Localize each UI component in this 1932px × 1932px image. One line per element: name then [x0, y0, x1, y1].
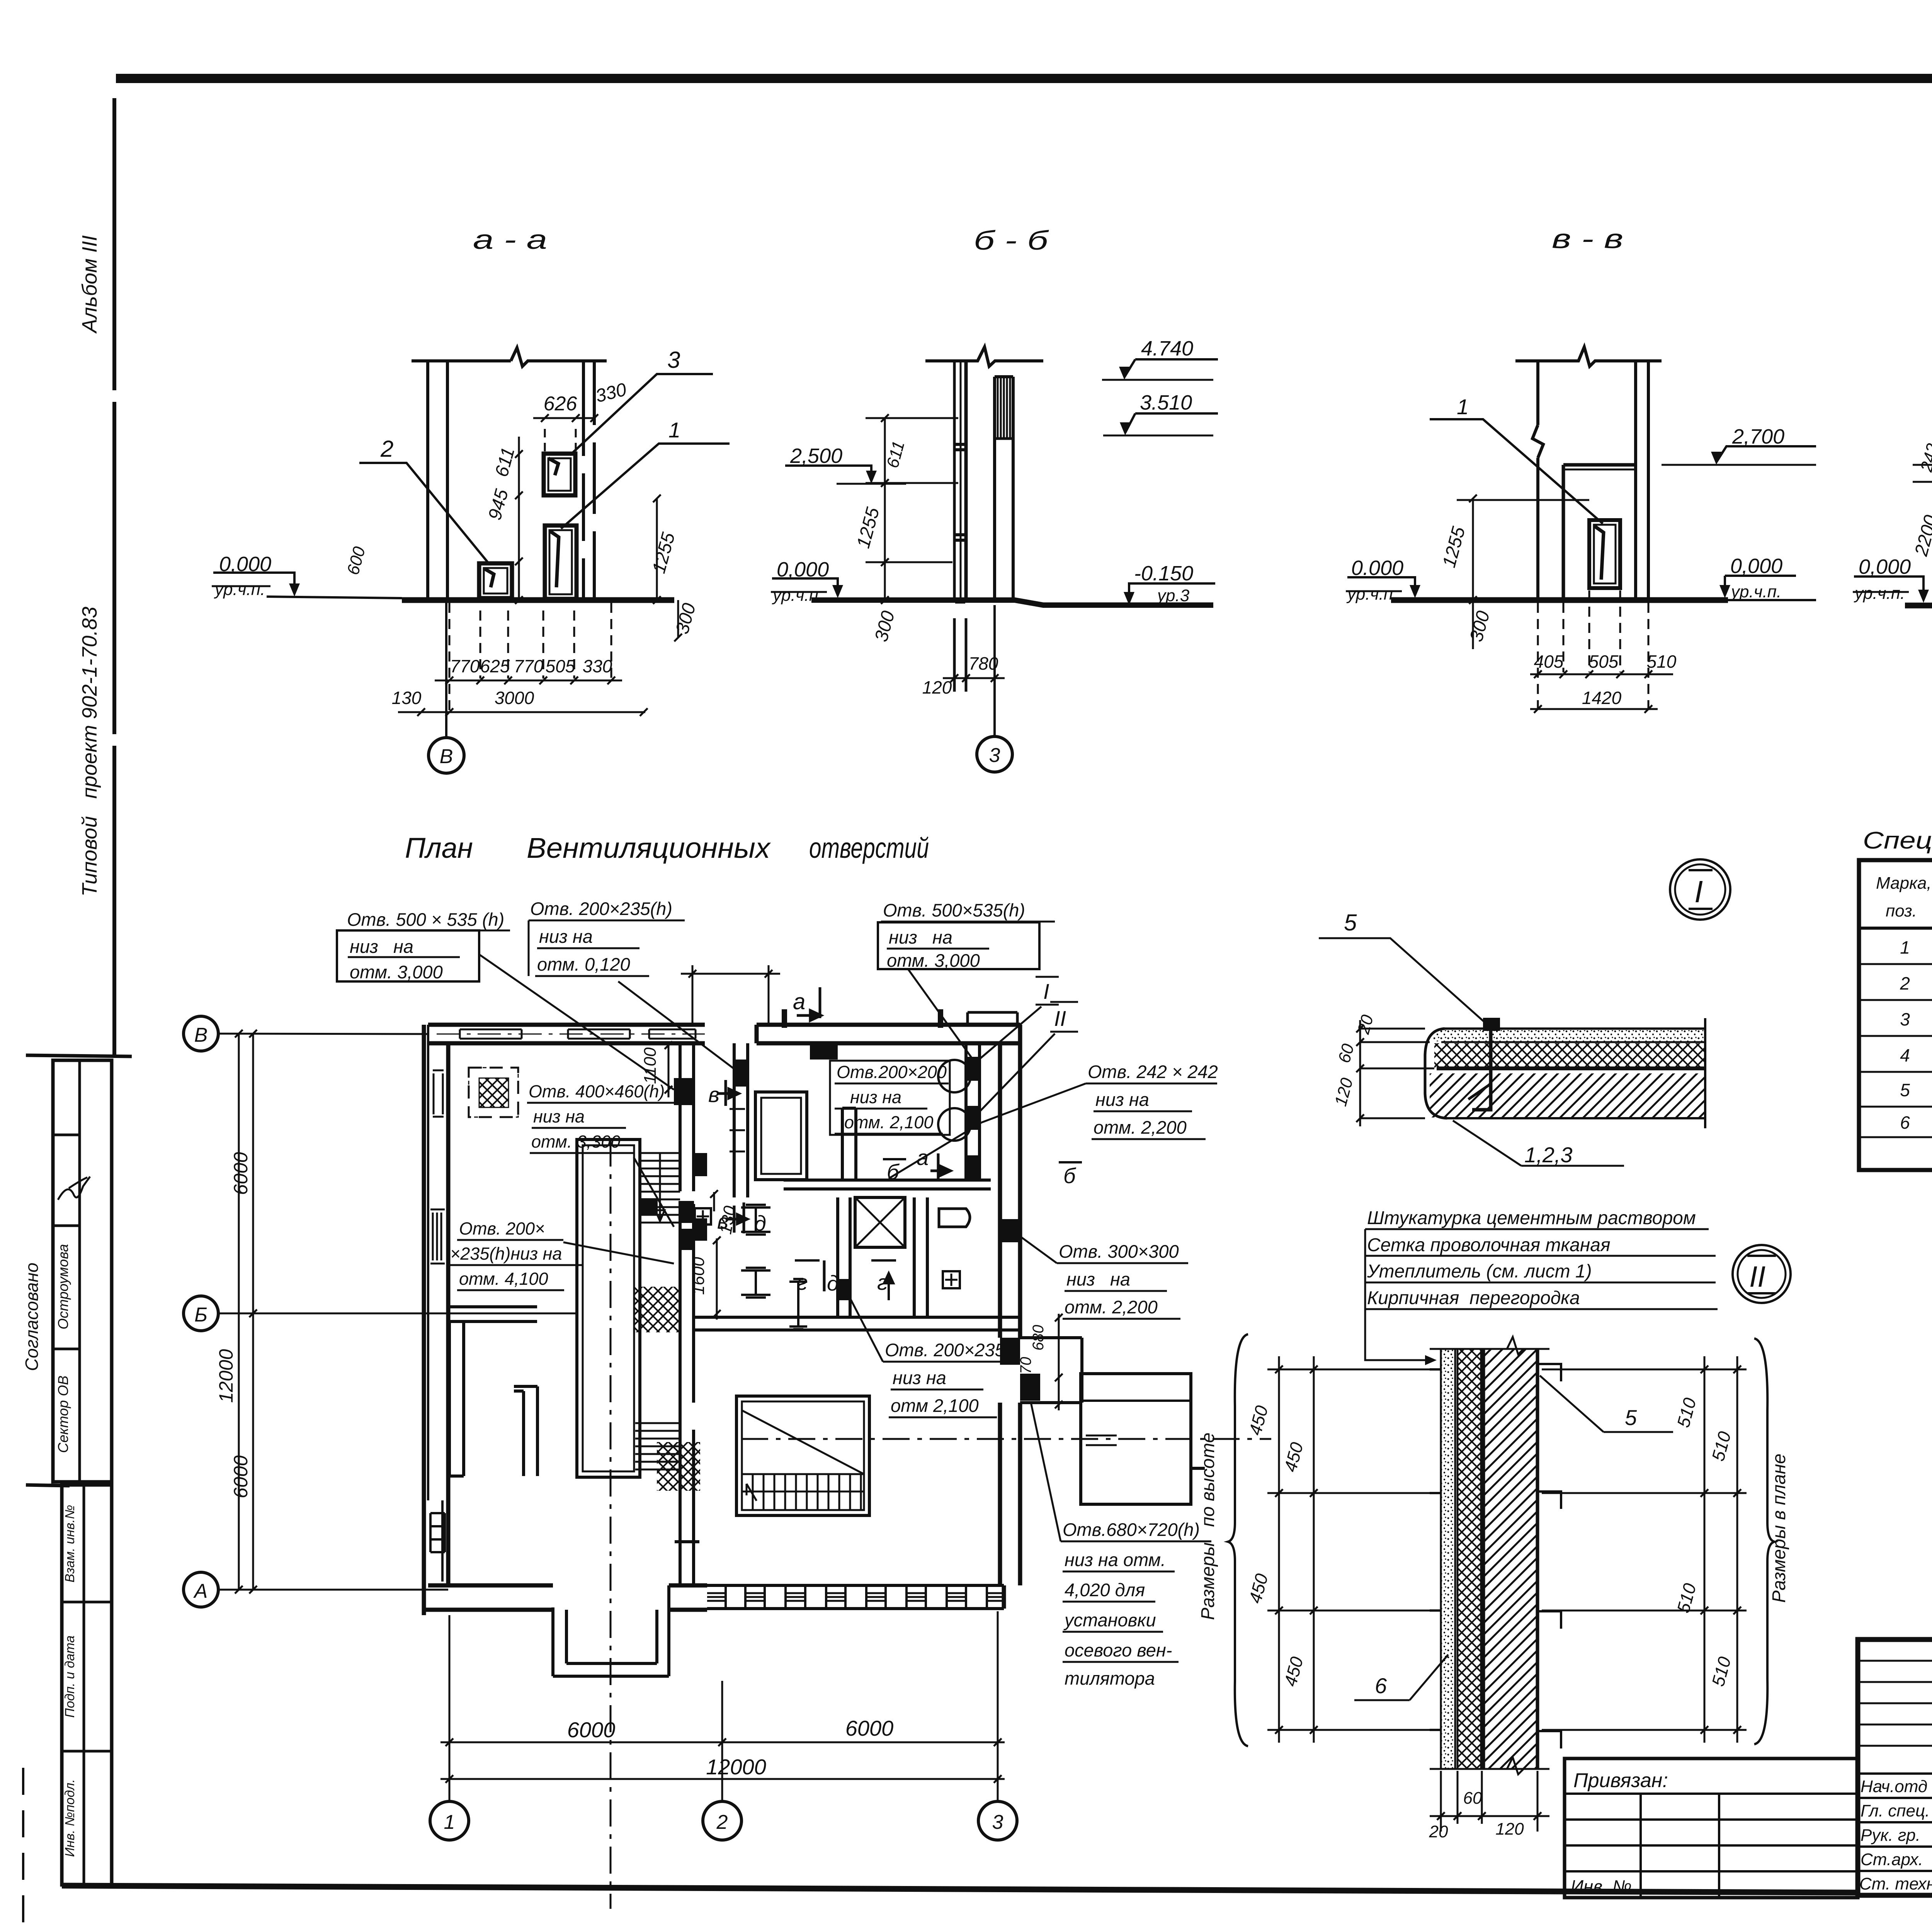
- B-B left wall column lines: [953, 361, 956, 598]
- svg-text:низ на: низ на: [850, 1087, 901, 1107]
- svg-text:б: б: [1063, 1163, 1077, 1188]
- plan top exterior wall left part: [428, 1025, 705, 1043]
- plan callout 7 Otv242x242: [1088, 1061, 1218, 1138]
- plan black openings on walls: [968, 1057, 980, 1081]
- A-A opening pos2: [479, 563, 512, 598]
- svg-text:6000: 6000: [567, 1718, 616, 1742]
- svg-text:Спецификация к схеме расположе: Спецификация к схеме расположения заклад…: [1863, 827, 1932, 854]
- A-A leader 3: [570, 374, 713, 455]
- V-V leader 1: [1430, 419, 1603, 524]
- plan bottom dim line 1: [440, 1738, 1005, 1746]
- B-B right wall lines: [993, 377, 996, 600]
- plan callout 9 Otv200x235 low: [885, 1340, 1005, 1416]
- plan middle partitions: [838, 1197, 850, 1317]
- svg-text:б - б: б - б: [974, 225, 1049, 255]
- svg-text:II: II: [1054, 1006, 1066, 1031]
- wall detail left dims: [1279, 1356, 1314, 1743]
- svg-text:отм. 3,300: отм. 3,300: [531, 1132, 620, 1151]
- svg-text:780: 780: [969, 653, 998, 673]
- A-A bottom dim line 2: [398, 708, 648, 716]
- A-A grid circle V: [429, 738, 464, 773]
- G-G level 0.000 left flag: [1854, 577, 1923, 600]
- plan beam symbols: [741, 1205, 770, 1235]
- svg-text:А: А: [193, 1580, 208, 1602]
- svg-text:3: 3: [992, 1811, 1003, 1833]
- plan crosshatch blob stairs bottom: [657, 1442, 700, 1491]
- plan dim 1600: [713, 1236, 721, 1320]
- plan callout 10 Otv680x720: [1063, 1519, 1200, 1689]
- plan section mark b right: [1059, 1161, 1082, 1163]
- plan dim 770/680 appendix: [1055, 1314, 1063, 1410]
- detail I dims: [1356, 1020, 1364, 1126]
- detail II circle: [1733, 1245, 1791, 1303]
- svg-text:12000: 12000: [706, 1755, 766, 1779]
- svg-text:низ на: низ на: [539, 926, 593, 947]
- svg-text:Привязан:: Привязан:: [1573, 1769, 1668, 1792]
- spec table frame: [1859, 860, 1932, 1170]
- svg-text:д: д: [827, 1271, 839, 1295]
- V-V right wall lines: [1634, 361, 1637, 600]
- svg-text:отм. 3,000: отм. 3,000: [887, 950, 980, 971]
- B-B level 2.500 flag: [785, 466, 871, 481]
- plan bottom dim line 2: [440, 1775, 1005, 1783]
- A-A leader 2: [359, 463, 490, 565]
- svg-text:ур.ч.п.: ур.ч.п.: [1730, 582, 1781, 601]
- plan vertical axis dash-dot: [610, 1139, 612, 1909]
- svg-text:Подп. и дата: Подп. и дата: [63, 1636, 77, 1718]
- svg-text:ур.ч.п.: ур.ч.п.: [214, 580, 265, 599]
- svg-text:осевого вен-: осевого вен-: [1065, 1640, 1172, 1660]
- svg-text:В: В: [194, 1024, 208, 1046]
- plan fan duct box: [1081, 1374, 1191, 1504]
- V-V left dim chain: [1469, 495, 1477, 604]
- V-V left wall line: [1532, 361, 1543, 600]
- plan right appendix: [1020, 1338, 1082, 1403]
- svg-text:3: 3: [989, 744, 1000, 767]
- wall detail right dims: [1704, 1356, 1737, 1743]
- A-A left dim chain: [515, 437, 523, 604]
- B-B below floor dim: [943, 674, 1005, 682]
- plan bottom exterior wall left part: [424, 1585, 553, 1610]
- svg-text:1: 1: [1900, 937, 1910, 957]
- svg-text:1: 1: [444, 1811, 455, 1833]
- svg-text:1,2,3: 1,2,3: [1524, 1143, 1573, 1167]
- svg-text:I: I: [1694, 874, 1703, 909]
- svg-text:Б: Б: [194, 1304, 207, 1326]
- plan callout 1 Otv500x535 left: [347, 909, 504, 982]
- A-A top dim 626 line: [533, 414, 598, 422]
- sidebar lower table: [62, 1485, 112, 1885]
- svg-text:Сетка проволочная тканая: Сетка проволочная тканая: [1367, 1235, 1611, 1255]
- svg-text:120: 120: [1495, 1820, 1524, 1838]
- svg-text:Взам. инв.№: Взам. инв.№: [63, 1505, 77, 1583]
- svg-text:626: 626: [544, 393, 577, 415]
- svg-text:а: а: [917, 1145, 929, 1170]
- svg-text:Согласовано: Согласовано: [22, 1263, 42, 1371]
- svg-text:Гл. спец.: Гл. спец.: [1861, 1801, 1930, 1820]
- svg-text:поз.: поз.: [1886, 901, 1917, 920]
- detail I anchor: [1483, 1018, 1500, 1031]
- B-B level 4.740 flag: [1124, 359, 1218, 377]
- svg-text:отм. 2,200: отм. 2,200: [1094, 1117, 1187, 1138]
- wall detail leader 5: [1540, 1376, 1673, 1432]
- svg-text:Марка,: Марка,: [1876, 874, 1932, 893]
- svg-text:60: 60: [1463, 1789, 1482, 1808]
- B-B top wall line with break: [925, 347, 1043, 366]
- svg-text:3000: 3000: [495, 688, 534, 708]
- svg-text:низ на отм.: низ на отм.: [1065, 1549, 1166, 1570]
- detail I leader 5: [1319, 938, 1486, 1023]
- plan right exterior wall: [1000, 1025, 1020, 1338]
- frame bottom border: [62, 1886, 1859, 1893]
- sidebar upper table: [53, 1060, 112, 1482]
- plan X-damper box: [855, 1197, 905, 1247]
- svg-text:Отв. 300×300: Отв. 300×300: [1059, 1241, 1179, 1262]
- svg-text:6000: 6000: [230, 1152, 252, 1195]
- svg-text:Рук. гр.: Рук. гр.: [1861, 1826, 1920, 1845]
- plan callout 6 Otv200x200 framed: [837, 1062, 947, 1132]
- svg-text:2,700: 2,700: [1732, 425, 1784, 448]
- svg-text:отм. 2,100: отм. 2,100: [844, 1112, 933, 1132]
- svg-text:6000: 6000: [230, 1455, 252, 1498]
- B-B floor line stepped: [811, 600, 1213, 605]
- A-A bottom dim line 1: [435, 680, 622, 682]
- svg-text:а: а: [793, 989, 805, 1014]
- plan fixture right room: [939, 1209, 970, 1227]
- B-B level 3.510 flag: [1125, 413, 1218, 433]
- V-V opening rect: [1589, 520, 1620, 588]
- plan top exterior wall right part: [757, 1025, 1020, 1043]
- sidebar signature squiggle: [58, 1177, 90, 1200]
- svg-text:в: в: [717, 1209, 728, 1233]
- svg-text:Отв. 242 × 242: Отв. 242 × 242: [1088, 1061, 1218, 1082]
- plan left dim line 6000s: [249, 1030, 257, 1594]
- svg-text:770: 770: [514, 656, 544, 676]
- svg-text:0.000: 0.000: [1351, 556, 1403, 580]
- plan stair shaft: [577, 1139, 640, 1477]
- svg-text:1600: 1600: [689, 1257, 708, 1295]
- title block: [1858, 1639, 1932, 1895]
- svg-text:отм. 2,200: отм. 2,200: [1065, 1297, 1158, 1317]
- plan callout 8 Otv300x300: [1059, 1241, 1179, 1317]
- svg-text:4.740: 4.740: [1141, 337, 1193, 360]
- plan small plus box: [695, 1208, 711, 1225]
- plan section cut thick ticks on top wall: [784, 1009, 940, 1028]
- svg-text:505: 505: [1589, 651, 1619, 672]
- svg-text:0,000: 0,000: [777, 558, 829, 581]
- plan small plus box 2: [943, 1271, 960, 1288]
- svg-text:120: 120: [922, 677, 952, 697]
- svg-text:2: 2: [716, 1811, 728, 1833]
- plan vent partition x2500: [966, 1043, 980, 1180]
- A-A top wall line with break: [412, 348, 607, 366]
- svg-text:отверстий: отверстий: [809, 832, 929, 864]
- wall detail braces: [1228, 1334, 1248, 1746]
- svg-text:ур.ч.п.: ур.ч.п.: [1346, 585, 1398, 604]
- detail I circle: [1670, 859, 1730, 920]
- frame top border: [116, 77, 1932, 78]
- plan dim 130: [710, 1190, 718, 1211]
- V-V top wall line with break: [1515, 347, 1662, 366]
- svg-text:5: 5: [1900, 1080, 1910, 1100]
- svg-text:1420: 1420: [1582, 688, 1622, 708]
- svg-text:Отв. 200×: Отв. 200×: [459, 1219, 545, 1238]
- plan partition bottom-left horizontal band: [448, 1307, 537, 1321]
- wall detail leader 6: [1354, 1655, 1448, 1700]
- svg-text:6: 6: [1900, 1112, 1910, 1133]
- plan crosshatch blob stairs mid: [634, 1287, 679, 1332]
- svg-text:Размеры в плане: Размеры в плане: [1769, 1454, 1789, 1603]
- B-B level 0.000 flag: [772, 578, 838, 595]
- V-V lintel: [1563, 463, 1636, 467]
- plan wall y3409: [694, 1317, 1020, 1330]
- svg-text:1: 1: [668, 418, 680, 442]
- svg-text:5: 5: [1344, 910, 1357, 935]
- svg-text:г: г: [797, 1270, 808, 1294]
- svg-text:12000: 12000: [215, 1349, 237, 1403]
- svg-text:В: В: [440, 745, 453, 768]
- svg-text:0,000: 0,000: [219, 553, 271, 576]
- svg-text:405: 405: [1534, 651, 1564, 672]
- B-B hatched strip in right wall: [998, 378, 1010, 439]
- plan interior long wall x1760: [675, 1043, 699, 1585]
- svg-text:Ст.арх.: Ст.арх.: [1861, 1850, 1923, 1869]
- svg-text:680: 680: [1030, 1325, 1047, 1351]
- plan dim lines above vent chamber: [681, 965, 780, 1024]
- svg-text:×235(h)низ на: ×235(h)низ на: [450, 1244, 562, 1264]
- svg-text:130: 130: [392, 688, 422, 708]
- svg-text:д: д: [754, 1211, 766, 1235]
- sidebar line above upper table: [26, 1055, 132, 1056]
- plan stair treads upper: [640, 1153, 680, 1223]
- svg-text:Отв. 500×535(h): Отв. 500×535(h): [883, 900, 1025, 920]
- svg-text:Отв.200×200: Отв.200×200: [837, 1062, 947, 1082]
- A-A opening pos1: [545, 526, 577, 599]
- svg-text:тилятора: тилятора: [1065, 1668, 1155, 1689]
- svg-text:Кирпичная перегородка: Кирпичная перегородка: [1367, 1288, 1580, 1308]
- V-V level 0.000 left flag: [1347, 577, 1415, 595]
- svg-text:низ на: низ на: [1066, 1269, 1130, 1289]
- svg-text:а - а: а - а: [473, 224, 547, 255]
- svg-text:770: 770: [450, 656, 480, 676]
- V-V opening jamb: [1562, 465, 1565, 600]
- frame left border: [112, 98, 116, 1055]
- V-V below floor dim 300: [1472, 603, 1474, 649]
- svg-text:6000: 6000: [845, 1716, 894, 1740]
- wall detail bottom dims: [1441, 1771, 1537, 1832]
- plan callout 4 Otv400x460: [529, 1082, 665, 1151]
- svg-text:Отв. 200×235(h): Отв. 200×235(h): [530, 898, 672, 919]
- svg-text:Отв. 400×460(h): Отв. 400×460(h): [529, 1082, 665, 1101]
- svg-text:в - в: в - в: [1552, 224, 1623, 254]
- A-A level 0.000 flag: [213, 573, 294, 594]
- wall detail anchors: [1537, 1364, 1561, 1748]
- svg-text:низ на: низ на: [533, 1107, 585, 1126]
- plan bottom-left interior partition: [449, 1321, 464, 1476]
- svg-text:установки: установки: [1063, 1610, 1156, 1630]
- svg-text:2: 2: [1900, 973, 1910, 993]
- plan horizontal axis dash-dot: [741, 1438, 1271, 1440]
- plan vent room bottom wall: [784, 1180, 991, 1189]
- B-B left column fill marks: [955, 444, 965, 602]
- svg-text:Размеры по высоте: Размеры по высоте: [1198, 1432, 1218, 1620]
- plan vent partition x2180: [842, 1108, 856, 1180]
- svg-text:Вентиляционных: Вентиляционных: [527, 832, 771, 864]
- B-B level -0.150 flag: [1129, 583, 1215, 602]
- svg-text:Инв. №подл.: Инв. №подл.: [63, 1779, 77, 1857]
- svg-text:1: 1: [1457, 395, 1469, 419]
- svg-text:Инв. №: Инв. №: [1571, 1876, 1632, 1896]
- G-G floor line: [1905, 603, 1932, 609]
- detail I leader 123: [1453, 1121, 1624, 1166]
- svg-text:Штукатурка цементным раствором: Штукатурка цементным раствором: [1367, 1208, 1696, 1228]
- svg-text:4,020 для: 4,020 для: [1065, 1580, 1145, 1600]
- svg-text:510: 510: [1647, 651, 1677, 672]
- svg-text:Остроумова: Остроумова: [55, 1244, 71, 1329]
- plan callout 3 Otv500x535 right: [883, 900, 1025, 971]
- svg-text:ур.ч.п.: ур.ч.п.: [772, 586, 823, 605]
- svg-text:505: 505: [546, 656, 575, 676]
- plan callout 2 Otv200x235 top: [530, 898, 672, 975]
- svg-text:б: б: [887, 1160, 900, 1184]
- privyazan box: [1565, 1759, 1858, 1898]
- A-A right wall lines: [582, 361, 585, 600]
- svg-text:0,000: 0,000: [1730, 554, 1782, 578]
- svg-text:Нач.отд: Нач.отд: [1861, 1777, 1927, 1796]
- detail II text lines: [1367, 1208, 1696, 1308]
- svg-text:ур.3: ур.3: [1156, 586, 1190, 605]
- A-A left wall lines: [426, 361, 429, 600]
- left margin dashed line: [22, 1768, 24, 1932]
- B-B left dim chain: [881, 414, 889, 604]
- svg-text:0,000: 0,000: [1859, 555, 1911, 578]
- svg-text:2,500: 2,500: [790, 444, 842, 468]
- plan stair treads lower: [635, 1423, 680, 1469]
- svg-text:отм 2,100: отм 2,100: [891, 1395, 979, 1416]
- svg-text:отм. 0,120: отм. 0,120: [537, 954, 630, 975]
- svg-text:низ на: низ на: [350, 936, 413, 957]
- svg-text:I: I: [1043, 979, 1049, 1003]
- plan vent chamber wall x1900: [734, 1043, 748, 1197]
- plan callout 5 Otv200x235 mid-left: [450, 1219, 562, 1289]
- svg-text:низ на: низ на: [889, 927, 952, 947]
- svg-text:низ на: низ на: [893, 1367, 946, 1388]
- svg-text:625: 625: [480, 656, 510, 676]
- V-V level 2.700 flag right: [1716, 446, 1816, 462]
- svg-text:Альбом III: Альбом III: [78, 235, 101, 334]
- svg-text:II: II: [1749, 1260, 1765, 1293]
- svg-text:2: 2: [380, 436, 393, 462]
- svg-text:отм. 3,000: отм. 3,000: [350, 962, 443, 982]
- plan grid circle A: [184, 1572, 218, 1607]
- plan left dim line 12000: [235, 1030, 243, 1594]
- wall detail strip: [1228, 1334, 1774, 1832]
- plan grid circle V: [184, 1016, 218, 1051]
- plan left exterior wall: [424, 1025, 448, 1615]
- B-B grid line 3: [993, 605, 996, 736]
- svg-text:Сектор ОВ: Сектор ОВ: [55, 1376, 71, 1453]
- V-V bottom dims: [1530, 670, 1673, 678]
- V-V level 0.000 right flag: [1725, 576, 1796, 595]
- svg-text:3.510: 3.510: [1140, 391, 1192, 414]
- A-A leader 1: [561, 444, 730, 529]
- A-A opening pos3: [544, 454, 575, 495]
- svg-text:отм. 4,100: отм. 4,100: [459, 1269, 548, 1289]
- svg-text:5: 5: [1625, 1405, 1637, 1430]
- A-A grid line V: [445, 600, 447, 737]
- plan flap valve circles: [938, 1060, 971, 1092]
- plan bottom grid circles: [430, 1801, 469, 1840]
- plan grid circle B: [184, 1296, 218, 1331]
- svg-text:3: 3: [667, 347, 680, 373]
- A-A right dim chain: [653, 495, 661, 604]
- plan section mark b + a bottom: [883, 1158, 906, 1160]
- plan roof hatch dashed square: [469, 1068, 518, 1117]
- plan vent equipment duct: [755, 1092, 807, 1180]
- detail I slab: [1319, 938, 1705, 1166]
- sidebar line above lower table: [26, 1485, 70, 1486]
- svg-text:6: 6: [1375, 1673, 1387, 1698]
- svg-text:ур.ч.п.: ур.ч.п.: [1854, 584, 1905, 603]
- svg-text:Утеплитель (см. лист 1): Утеплитель (см. лист 1): [1367, 1261, 1592, 1282]
- svg-text:Ст. техн.: Ст. техн.: [1859, 1874, 1932, 1893]
- svg-text:Отв. 200×235: Отв. 200×235: [885, 1340, 1005, 1360]
- plan dim marks 1100: [665, 1041, 672, 1097]
- V-V floor line: [1391, 597, 1728, 603]
- svg-text:4: 4: [1900, 1045, 1910, 1065]
- svg-text:Типовой проект 902-1-70.83: Типовой проект 902-1-70.83: [78, 607, 101, 896]
- svg-text:План: План: [405, 832, 473, 864]
- svg-text:Отв. 500 × 535 (h): Отв. 500 × 535 (h): [347, 909, 504, 930]
- svg-text:Отв.680×720(h): Отв.680×720(h): [1063, 1519, 1200, 1540]
- plan grate box bottom room: [736, 1396, 869, 1515]
- svg-text:в: в: [708, 1082, 719, 1107]
- svg-text:20: 20: [1429, 1822, 1448, 1841]
- svg-text:770: 770: [1017, 1357, 1034, 1383]
- svg-text:-0.150: -0.150: [1134, 562, 1193, 585]
- svg-text:330: 330: [583, 656, 612, 676]
- plan bottom center pit: [553, 1585, 669, 1676]
- B-B below floor shaft: [954, 618, 966, 692]
- svg-text:3: 3: [1900, 1009, 1910, 1029]
- svg-text:низ на: низ на: [1095, 1089, 1149, 1110]
- plan bottom wall between pit and louvers: [669, 1585, 707, 1610]
- plan bottom louver band: [707, 1585, 1004, 1609]
- A-A floor line: [402, 597, 674, 603]
